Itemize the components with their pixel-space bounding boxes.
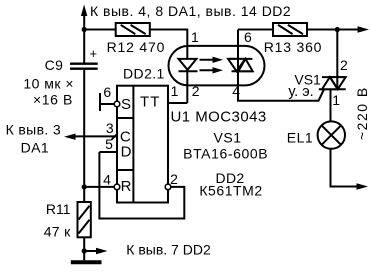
svg-text:10 мк ×: 10 мк × xyxy=(23,76,74,92)
inversion bubble S xyxy=(114,101,120,107)
wire R input xyxy=(84,186,114,188)
svg-text:TT: TT xyxy=(140,94,160,111)
svg-text:К выв. 4, 8 DA1, выв. 14 DD2: К выв. 4, 8 DA1, выв. 14 DD2 xyxy=(90,3,291,19)
inversion bubble R xyxy=(114,184,120,190)
junction dot R row on main rail xyxy=(82,184,87,189)
capacitor C9 xyxy=(70,64,98,69)
svg-text:4: 4 xyxy=(232,83,240,99)
junction dot top-left xyxy=(82,27,87,32)
svg-text:U1 MOC3043: U1 MOC3043 xyxy=(171,109,267,126)
dynamic input slash at C xyxy=(112,134,118,140)
svg-text:1: 1 xyxy=(171,83,179,99)
svg-text:6: 6 xyxy=(103,84,111,100)
svg-text:VS1: VS1 xyxy=(214,129,242,145)
node +supply arrow up (К выв. 4, 8 DA1, выв. 14 DD2) xyxy=(81,5,87,30)
svg-text:К выв. 7 DD2: К выв. 7 DD2 xyxy=(126,242,211,258)
svg-text:DD2.1: DD2.1 xyxy=(123,66,165,82)
svg-text:DA1: DA1 xyxy=(21,140,49,156)
wire VS1 anode 2 xyxy=(336,30,338,78)
wire top right rail R13 xyxy=(238,29,273,31)
inversion bubble output 2 xyxy=(165,184,171,190)
wire R13 to junction and arrow right (~220 V line) xyxy=(307,26,369,32)
wire main vertical C9 bottom to R11 xyxy=(83,70,85,202)
node К выв. 3 DA1 arrow left xyxy=(64,134,117,140)
wire LED anode inside oval xyxy=(186,46,188,59)
wire VS1 to lamp xyxy=(330,89,332,121)
svg-text:4: 4 xyxy=(103,172,111,188)
junction dot top right xyxy=(335,27,340,32)
resistor R11 xyxy=(78,202,91,237)
light arrows xyxy=(200,57,224,74)
ground (common) bar xyxy=(71,260,102,264)
svg-text:EL1: EL1 xyxy=(287,129,313,145)
junction dot bottom xyxy=(82,248,87,253)
flip-flop DD2.1 box xyxy=(117,86,168,203)
common terminal bar at S input xyxy=(99,93,101,111)
resistor R12 xyxy=(116,23,150,36)
wire feedback loop pin 2 to D xyxy=(99,152,184,219)
svg-text:R: R xyxy=(121,178,132,195)
svg-text:S: S xyxy=(121,96,131,113)
lamp EL1 xyxy=(318,121,345,148)
wire opto pin 6 vertical xyxy=(237,30,239,59)
wire opto pin 4 down and gate rail xyxy=(238,78,330,101)
svg-text:6: 6 xyxy=(244,29,252,45)
wire R12 to opto pin 1 corner xyxy=(150,30,188,46)
LED of U1 (emitting diode) xyxy=(179,59,198,86)
wire output pin 1 xyxy=(168,102,187,104)
svg-text:К561ТМ2: К561ТМ2 xyxy=(199,183,262,199)
svg-text:2: 2 xyxy=(170,171,178,187)
wire opto pin 2 down xyxy=(186,85,188,103)
svg-text:3: 3 xyxy=(106,120,114,136)
svg-text:47 к: 47 к xyxy=(44,224,71,240)
svg-text:D: D xyxy=(121,144,132,161)
wire top rail left (junction to R12) xyxy=(84,29,116,31)
resistor R13 xyxy=(273,23,307,36)
wire lamp to bottom right arrow xyxy=(331,149,369,190)
wire R11 bottom to ground xyxy=(83,237,85,260)
wire D input xyxy=(99,151,117,153)
svg-text:1: 1 xyxy=(191,29,199,45)
svg-text:~220 В: ~220 В xyxy=(354,86,370,140)
svg-text:+: + xyxy=(90,46,98,61)
svg-text:1: 1 xyxy=(332,92,340,108)
svg-text:2: 2 xyxy=(192,83,200,99)
svg-text:у. э.: у. э. xyxy=(288,84,313,100)
svg-text:C9: C9 xyxy=(45,57,64,73)
optocoupler U1 body (oval) xyxy=(169,46,265,86)
triac VS1 xyxy=(319,77,346,89)
svg-text:R11: R11 xyxy=(46,201,71,217)
svg-text:5: 5 xyxy=(105,136,113,152)
wire S input xyxy=(100,103,114,105)
svg-text:2: 2 xyxy=(340,57,348,73)
node К выв. 7 DD2 arrow right xyxy=(84,248,107,254)
svg-text:R13 360: R13 360 xyxy=(264,39,323,55)
svg-text:BTA16-600В: BTA16-600В xyxy=(183,146,268,162)
photo-triac of U1 xyxy=(228,59,253,86)
wire C9 top (vertical main rail upper) xyxy=(83,30,85,63)
svg-text:R12 470: R12 470 xyxy=(107,39,166,55)
svg-text:×16 В: ×16 В xyxy=(33,92,73,108)
svg-text:К выв. 3: К выв. 3 xyxy=(6,122,61,138)
